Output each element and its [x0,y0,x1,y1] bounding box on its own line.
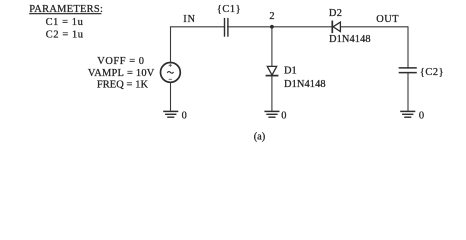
svg-text:FREQ = 1K: FREQ = 1K [97,80,149,91]
svg-text:{C1}: {C1} [217,4,241,15]
svg-text:C1 = 1u: C1 = 1u [46,17,84,28]
svg-text:0: 0 [182,110,187,121]
svg-text:D1: D1 [284,65,297,76]
svg-text:D1N4148: D1N4148 [329,34,371,45]
svg-text:VAMPL = 10V: VAMPL = 10V [88,68,155,79]
svg-text:{C2}: {C2} [420,67,444,78]
svg-text:D2: D2 [329,8,342,19]
svg-text:0: 0 [419,110,424,121]
svg-text:D1N4148: D1N4148 [284,79,326,90]
svg-text:OUT: OUT [376,14,399,25]
svg-text:(a): (a) [254,131,266,142]
svg-text:0: 0 [281,110,286,121]
svg-text:C2 = 1u: C2 = 1u [46,29,84,40]
svg-text:2: 2 [269,11,274,22]
svg-text:VOFF = 0: VOFF = 0 [97,56,144,67]
svg-text:IN: IN [183,14,196,25]
